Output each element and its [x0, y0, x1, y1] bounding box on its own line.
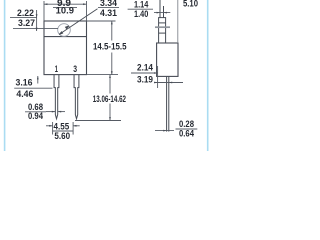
svg-text:13.06-14.62: 13.06-14.62: [93, 94, 126, 104]
dimension 9.9/10.9 (body width): [44, 1, 87, 21]
svg-text:3: 3: [73, 64, 77, 74]
svg-text:0.64: 0.64: [179, 129, 194, 139]
svg-text:0.28: 0.28: [179, 119, 194, 129]
side view tab (edge-on): [160, 0, 164, 18]
extension line for 5.10: [177, 0, 179, 43]
svg-text:3.16: 3.16: [16, 78, 33, 88]
svg-text:3.27: 3.27: [18, 18, 35, 28]
svg-text:1.14: 1.14: [134, 0, 148, 9]
svg-text:2.22: 2.22: [17, 8, 34, 18]
svg-text:4.55: 4.55: [54, 121, 70, 131]
svg-text:4.46: 4.46: [16, 89, 33, 99]
table border left (light blue): [4, 0, 6, 151]
svg-text:4.31: 4.31: [100, 8, 117, 18]
hole diameter leader line: [59, 9, 97, 35]
mounting hole circle: [58, 24, 71, 37]
dimension 13.06-14.62 (lead length): [75, 75, 121, 121]
svg-text:5.60: 5.60: [54, 131, 70, 141]
dimension 4.55/5.60 (lead pitch): [46, 122, 80, 135]
svg-text:10.9: 10.9: [56, 5, 74, 15]
svg-text:1.40: 1.40: [134, 9, 148, 19]
side view lead: [167, 76, 169, 131]
lead 1 (front view): [54, 75, 59, 119]
svg-text:5.10: 5.10: [183, 0, 198, 9]
dimension 14.5-15.5 (body height): [87, 21, 119, 75]
side view body: [157, 43, 178, 76]
svg-text:2.14: 2.14: [137, 63, 153, 73]
table border right (light blue): [207, 0, 209, 151]
svg-text:14.5-15.5: 14.5-15.5: [93, 41, 127, 51]
svg-text:3.34: 3.34: [100, 0, 117, 8]
svg-text:0.94: 0.94: [28, 111, 43, 121]
svg-text:3.19: 3.19: [137, 75, 153, 85]
svg-text:1: 1: [55, 64, 58, 74]
front view body outline: [44, 21, 87, 75]
side view grooved tab block: [159, 18, 166, 43]
lead 3 (front view): [74, 75, 79, 119]
groove marker line: [155, 26, 170, 28]
